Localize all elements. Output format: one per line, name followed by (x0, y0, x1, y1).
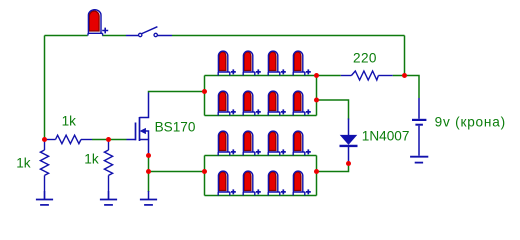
svg-text:1N4007: 1N4007 (362, 128, 410, 143)
wire group A right vertical (316, 76, 318, 116)
wire group A left vertical (204, 76, 206, 116)
node source/groupB junction (146, 169, 151, 174)
svg-text:BS170: BS170 (155, 120, 196, 135)
LED D8 row2 (268, 91, 286, 115)
node groupB left junction (202, 169, 207, 174)
wire row 2 (205, 115, 317, 117)
LED D3 row1 (243, 51, 261, 75)
wire group B left vertical (204, 156, 206, 196)
node source lead junction (146, 153, 151, 158)
resistor R2 1k horizontal (45, 135, 93, 144)
ground of Q1 source (140, 191, 157, 205)
ground of R3 (100, 191, 117, 205)
wire node C to diode (317, 100, 349, 120)
svg-text:220: 220 (353, 51, 377, 66)
battery B1 9v (412, 98, 426, 156)
wire diode to node E (317, 164, 349, 172)
svg-text:9v (крона): 9v (крона) (435, 115, 506, 130)
LED D2 row1 (218, 51, 236, 75)
node R1/R2 junction (42, 137, 47, 142)
LED D17 row4 (293, 171, 311, 195)
wire row 3 (205, 155, 317, 157)
wire R2 to gate node (92, 139, 127, 141)
svg-text:1k: 1k (62, 113, 77, 128)
LED D5 row1 (293, 51, 311, 75)
wire drain to LED group A (149, 92, 205, 93)
node R2/R3/gate junction (106, 137, 111, 142)
wire top horizontal (45, 35, 405, 37)
LED D11 row3 (243, 131, 261, 155)
resistor R4 220 (317, 71, 405, 80)
LED D6 row2 (218, 91, 236, 115)
node D diode cathode (346, 161, 351, 166)
LED D14 row4 (218, 171, 236, 195)
wire row 4 (205, 195, 317, 197)
wire group B right vertical (316, 156, 318, 196)
ground of R1 (36, 191, 53, 205)
resistor R3 1k vertical mid (104, 140, 112, 200)
wire left vertical (44, 36, 46, 140)
wire source to LED group B (149, 171, 205, 173)
LED D15 row4 (243, 171, 261, 195)
node E groupB right branch (314, 169, 319, 174)
LED D9 row2 (293, 91, 311, 115)
LED D10 row3 (218, 131, 236, 155)
LED D1 top (88, 10, 108, 36)
ground of battery (410, 157, 428, 163)
LED D13 row3 (293, 131, 311, 155)
node B resistor right (402, 73, 407, 78)
svg-text:1k: 1k (16, 156, 31, 171)
wire right vertical (404, 36, 406, 76)
wire source down (148, 156, 150, 193)
LED D16 row4 (268, 171, 286, 195)
diode D18 1N4007 (340, 119, 358, 164)
wire node B to battery (405, 76, 420, 99)
node drain/groupA junction (202, 89, 207, 94)
LED D7 row2 (243, 91, 261, 115)
wire row 1 (205, 75, 317, 77)
transistor Q1 BS170 (127, 93, 149, 156)
LED D12 row3 (268, 131, 286, 155)
switch S1 (126, 27, 172, 37)
svg-text:1k: 1k (84, 151, 99, 166)
LED D4 row1 (268, 51, 286, 75)
node C diode branch (314, 98, 319, 103)
node A row1 right (314, 73, 319, 78)
resistor R1 1k vertical left (40, 140, 48, 200)
